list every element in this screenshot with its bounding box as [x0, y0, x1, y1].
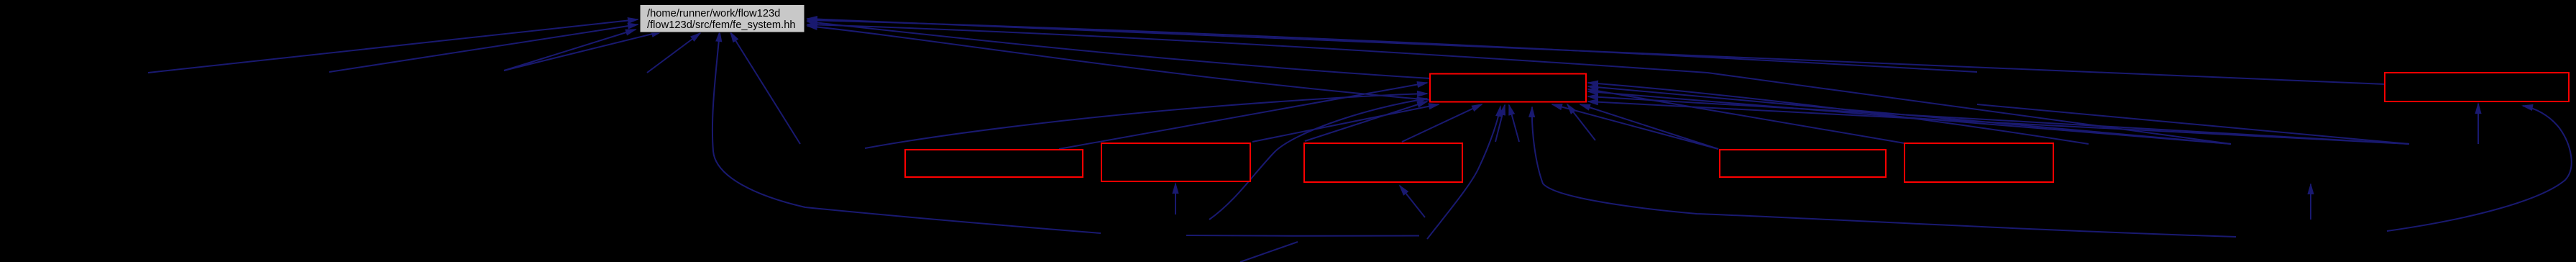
svg-text:/home/runner/work/flow123d: /home/runner/work/flow123d: [647, 8, 780, 19]
svg-text:/flow123d/src/fem/fe_system.hh: /flow123d/src/fem/fe_system.hh: [647, 19, 796, 31]
